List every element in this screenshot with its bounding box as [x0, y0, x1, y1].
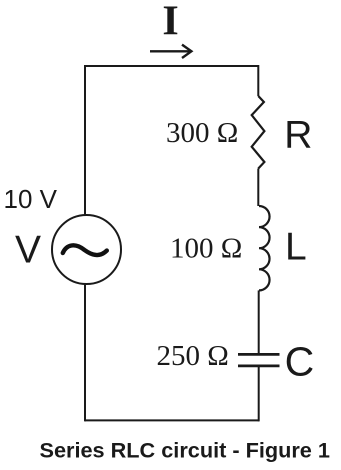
wire right: top to resistor: [257, 65, 259, 96]
current arrow: [150, 45, 191, 58]
wire left upper: [84, 65, 86, 215]
wire bottom horizontal: [85, 419, 259, 421]
AC source V circle: [52, 215, 121, 284]
svg-text:V: V: [15, 228, 41, 271]
wire right: resistor to inductor: [257, 169, 259, 207]
svg-text:C: C: [285, 339, 315, 385]
wire right: inductor to capacitor: [258, 290, 260, 354]
svg-text:L: L: [285, 225, 307, 268]
svg-text:250 Ω: 250 Ω: [157, 340, 229, 372]
svg-text:R: R: [284, 113, 312, 156]
wire left lower: [84, 284, 86, 421]
inductor L1 coil: [259, 206, 270, 290]
wire top horizontal: [85, 65, 259, 67]
AC source sine wave: [63, 245, 107, 255]
svg-text:300 Ω: 300 Ω: [166, 117, 238, 149]
capacitor C1 plates: [238, 354, 280, 366]
resistor R1 zigzag: [252, 96, 265, 169]
svg-text:10 V: 10 V: [4, 184, 58, 214]
svg-text:Series RLC circuit - Figure 1: Series RLC circuit - Figure 1: [40, 438, 330, 463]
svg-text:100 Ω: 100 Ω: [170, 232, 242, 264]
wire right: capacitor to bottom: [258, 366, 260, 421]
svg-text:I: I: [162, 0, 178, 44]
